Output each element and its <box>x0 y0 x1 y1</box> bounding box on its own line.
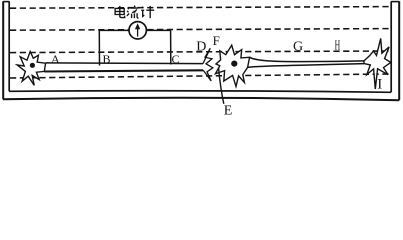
dashed ruled line 3 <box>10 51 390 53</box>
frame top-left cap <box>3 1 9 3</box>
neuron 2 nucleus dot <box>231 61 237 67</box>
neuron 1 axon fiber A-B-C-D <box>46 62 203 65</box>
svg-text:B: B <box>103 52 111 66</box>
galvanometer meter circle <box>129 22 146 39</box>
neuron 2 cell body <box>215 45 249 86</box>
neuron 2 axon fiber F-G-H <box>248 57 364 67</box>
wire galvanometer loop B-C <box>99 30 171 65</box>
svg-text:G: G <box>293 40 303 55</box>
svg-text:E: E <box>224 104 233 117</box>
leader line to node E <box>219 68 224 104</box>
neuron 1 nucleus dot <box>30 63 35 68</box>
neuron 2 axon terminal I <box>364 38 391 89</box>
svg-text:A: A <box>51 52 60 66</box>
dashed ruled line 4 <box>10 74 390 78</box>
svg-text:H: H <box>335 39 341 54</box>
svg-text:F: F <box>213 33 220 48</box>
frame top-right cap <box>391 1 399 3</box>
svg-text:I: I <box>377 77 382 93</box>
dashed ruled line 2 <box>10 29 390 31</box>
neuron 1 axon terminal fork D <box>203 48 213 81</box>
neuron 1 cell body <box>17 52 45 86</box>
dashed ruled line 1 <box>10 7 390 9</box>
svg-text:C: C <box>172 52 180 66</box>
svg-text:D: D <box>196 40 206 55</box>
label 电流计 (galvanometer) hand-drawn glyphs <box>115 6 154 19</box>
galvanometer needle arrow <box>137 27 139 37</box>
frame inner border <box>9 1 391 92</box>
frame outer border <box>3 1 399 100</box>
